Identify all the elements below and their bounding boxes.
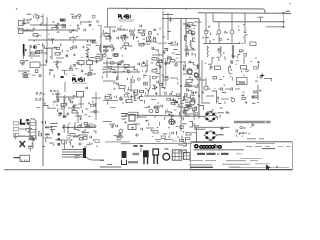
transistor <box>219 38 221 40</box>
junction <box>57 61 59 63</box>
wire <box>55 63 57 65</box>
resistor <box>66 54 68 56</box>
wire rail stub <box>105 141 130 143</box>
resistor R12 <box>170 60 175 62</box>
junction <box>242 97 246 99</box>
node <box>259 89 261 91</box>
wire <box>56 63 58 66</box>
resistor <box>173 48 177 50</box>
node <box>46 47 48 49</box>
capacitor <box>143 100 145 104</box>
junction <box>22 56 24 59</box>
wire <box>199 79 206 81</box>
wire <box>254 67 258 70</box>
capacitor <box>231 55 233 57</box>
resistor R11 <box>152 58 157 60</box>
wire bus <box>213 21 284 23</box>
junction <box>242 135 243 136</box>
wire <box>173 123 175 126</box>
diode <box>57 66 59 69</box>
diode <box>143 74 147 76</box>
bracket pre-block <box>181 136 183 143</box>
wire <box>240 50 244 52</box>
node <box>208 26 210 28</box>
diode <box>62 19 66 21</box>
capacitor C12 <box>184 23 186 26</box>
wire bracket <box>163 15 173 23</box>
resistor <box>236 63 238 65</box>
label dashes2 <box>22 76 27 78</box>
resistor <box>193 33 195 35</box>
capacitor <box>195 86 198 88</box>
bridge rectifier BR1 tab bot <box>209 120 213 122</box>
diode D6 <box>195 76 200 79</box>
transistor <box>70 31 72 33</box>
capacitor <box>73 137 75 139</box>
wire <box>19 135 26 137</box>
node <box>126 36 128 38</box>
wire <box>141 70 143 72</box>
capacitor <box>133 69 136 71</box>
resistor dark pair <box>59 113 62 115</box>
resistor <box>250 61 252 63</box>
junction <box>238 26 239 27</box>
resistor <box>187 51 189 54</box>
resistor R10 <box>139 44 144 46</box>
wire <box>184 113 196 115</box>
capacitor <box>73 64 76 66</box>
wire <box>184 85 196 87</box>
resistor R13 <box>188 23 193 25</box>
junction <box>146 39 148 41</box>
wire <box>252 102 256 104</box>
junction <box>193 62 195 65</box>
wire <box>66 50 69 52</box>
wire <box>184 49 196 51</box>
node <box>171 41 173 43</box>
transistor <box>153 37 155 39</box>
capacitor C8 <box>140 25 142 28</box>
capacitor <box>142 64 146 67</box>
bridge rectifier BR2 diamond <box>204 131 217 140</box>
transistor Q8b ring <box>187 69 192 74</box>
wire <box>109 46 114 48</box>
dark tick <box>134 145 138 147</box>
node <box>124 121 126 123</box>
junction <box>177 79 178 80</box>
wire <box>124 94 127 97</box>
wire <box>106 60 108 78</box>
wire <box>62 127 96 129</box>
junction <box>191 95 194 97</box>
resistor R41 <box>128 161 138 163</box>
node cross dark <box>260 74 264 78</box>
resistor R8 <box>104 34 109 36</box>
diode <box>138 32 142 34</box>
wire bus V+ <box>108 8 265 13</box>
junction <box>194 28 195 29</box>
capacitor C26 <box>110 97 112 100</box>
resistor <box>145 92 147 94</box>
wire <box>243 57 245 64</box>
resistor R36 <box>29 123 36 126</box>
logo underline <box>194 149 245 151</box>
resistor <box>65 73 67 75</box>
wire <box>224 56 226 58</box>
fuse F1 dot <box>25 49 27 51</box>
junction <box>93 29 94 30</box>
capacitor C34 <box>231 87 233 90</box>
capacitor <box>189 90 192 92</box>
wire rail left <box>180 19 182 119</box>
transistor <box>73 106 75 108</box>
junction <box>223 52 224 53</box>
node <box>45 60 47 62</box>
junction <box>70 25 71 26</box>
junction <box>49 34 50 35</box>
capacitor <box>140 94 142 97</box>
junction <box>230 73 233 75</box>
capacitor <box>218 103 221 105</box>
wire dashes row <box>110 107 116 109</box>
junction <box>164 88 166 90</box>
wire <box>29 45 31 56</box>
junction <box>237 81 238 82</box>
capacitor C25 <box>170 93 172 96</box>
diode <box>156 76 159 78</box>
diode <box>120 47 122 50</box>
wire <box>195 128 206 130</box>
transistor <box>224 31 226 33</box>
connector J2 pins <box>103 46 109 48</box>
relay K1 slug <box>239 81 246 84</box>
transistor Q14 <box>119 129 123 133</box>
capacitor <box>56 122 58 124</box>
capacitor <box>28 130 30 132</box>
wire <box>197 103 199 105</box>
capacitor C13 <box>185 35 187 38</box>
label dashes2 <box>259 138 264 140</box>
transistor <box>183 112 185 114</box>
capacitor <box>70 13 74 15</box>
transistor Q9 <box>194 73 198 77</box>
resistor <box>155 49 159 51</box>
resistor R7 <box>106 37 111 39</box>
node <box>189 76 191 78</box>
wire <box>56 93 58 103</box>
capacitor <box>143 74 145 76</box>
wire <box>32 74 36 76</box>
wire <box>63 25 65 27</box>
junction <box>255 57 257 59</box>
capacitor <box>171 102 175 104</box>
wire double top <box>256 143 275 145</box>
wire <box>193 123 195 127</box>
node <box>245 101 247 103</box>
junction <box>157 61 159 63</box>
wire <box>194 126 196 130</box>
label dashes <box>22 74 28 76</box>
title row1 dashes5 <box>286 146 291 148</box>
resistor <box>202 36 204 39</box>
wire <box>93 139 95 141</box>
capacitor <box>153 77 157 79</box>
capacitor <box>74 129 79 131</box>
node G <box>133 91 135 93</box>
wire <box>120 96 122 101</box>
logo mark <box>194 144 199 149</box>
transistor <box>97 20 99 22</box>
junction <box>187 115 189 117</box>
node <box>50 126 52 128</box>
wire <box>207 47 209 49</box>
bridge rectifier BR1 d3 <box>206 118 209 121</box>
capacitor <box>151 62 154 64</box>
wire <box>167 13 169 40</box>
junction <box>57 23 59 25</box>
wire <box>27 13 31 15</box>
capacitor C39 <box>90 136 92 139</box>
junction <box>156 68 157 69</box>
diode D1 <box>131 32 135 36</box>
wire tick <box>136 115 138 118</box>
transistor <box>240 126 243 129</box>
wire <box>103 62 122 64</box>
wire <box>244 35 246 44</box>
wire <box>57 90 59 102</box>
resistor <box>125 100 127 102</box>
title block left border <box>190 142 192 170</box>
node F <box>66 112 70 116</box>
resistor <box>29 146 33 148</box>
wire <box>30 24 65 26</box>
wire <box>226 112 230 114</box>
title model text word3 <box>221 153 229 155</box>
inductor L3 winding <box>52 93 61 95</box>
transistor <box>77 28 79 30</box>
wire <box>105 32 107 34</box>
transformer T2 body <box>172 150 182 160</box>
wire <box>244 13 246 22</box>
capacitor <box>80 118 82 120</box>
junction <box>96 145 97 146</box>
wire dashes row3 <box>179 106 186 108</box>
resistor <box>87 125 90 128</box>
capacitor <box>85 108 88 110</box>
transistor <box>231 62 233 64</box>
junction <box>168 43 172 45</box>
transistor <box>127 70 130 73</box>
diode <box>74 136 78 138</box>
wire <box>163 133 167 135</box>
wire <box>159 60 162 63</box>
capacitor C10 <box>166 49 168 52</box>
wire <box>183 73 187 75</box>
connector CN2 pins2 <box>58 138 61 141</box>
wire <box>205 85 209 87</box>
node <box>106 57 108 59</box>
junction <box>96 42 97 43</box>
capacitor C31 <box>193 110 195 113</box>
wire <box>64 140 66 149</box>
wire <box>123 89 125 91</box>
resistor R14 <box>190 40 191 47</box>
node <box>67 126 69 128</box>
wire <box>190 95 192 99</box>
wire <box>28 39 96 41</box>
wire <box>223 84 225 86</box>
wire <box>192 132 196 134</box>
wire <box>165 111 167 115</box>
transistor <box>165 62 167 64</box>
junction <box>183 65 184 66</box>
wire <box>50 69 54 71</box>
node <box>144 83 146 85</box>
diode <box>85 125 89 127</box>
wire corner <box>26 129 32 132</box>
wire <box>14 136 33 140</box>
wire <box>218 57 220 61</box>
wire <box>49 142 53 144</box>
capacitor <box>84 123 87 125</box>
wire <box>115 95 117 98</box>
wire <box>22 73 30 75</box>
resistor R44 <box>186 133 191 135</box>
node A <box>16 8 17 9</box>
capacitor <box>44 121 46 124</box>
bridge rectifier BR2 d2 <box>212 131 215 134</box>
label equals <box>75 155 81 157</box>
wire <box>235 88 240 90</box>
junction <box>125 48 126 49</box>
capacitor C4 <box>66 55 68 58</box>
wire <box>101 54 103 58</box>
diode <box>62 26 65 28</box>
junction <box>250 127 251 128</box>
resistor <box>79 138 83 140</box>
wire <box>170 44 178 46</box>
wire <box>44 137 52 139</box>
resistor <box>128 96 130 99</box>
wire <box>211 57 213 64</box>
node +V5 <box>251 123 255 127</box>
label dash2 <box>286 13 291 15</box>
capacitor <box>124 39 126 41</box>
wire <box>205 78 207 85</box>
capacitor cap pair <box>182 117 184 120</box>
node +V3 <box>251 95 255 99</box>
transformer T1 lead <box>86 44 91 46</box>
junction <box>96 56 97 57</box>
bridge rectifier BR2 d3 <box>206 136 209 139</box>
transistor Q9b ring <box>194 73 198 77</box>
diode <box>108 57 112 59</box>
node J <box>93 124 97 128</box>
title row5 dashes <box>189 164 212 166</box>
wire <box>146 60 148 72</box>
node <box>89 24 91 26</box>
resistor <box>208 63 211 65</box>
wire <box>74 122 76 130</box>
solder cluster dots <box>21 143 23 145</box>
wire <box>46 17 48 63</box>
junction <box>67 130 69 132</box>
resistor R6 <box>113 54 118 56</box>
wire <box>82 21 92 23</box>
wire step <box>43 106 56 109</box>
wire <box>239 51 242 53</box>
wire rail <box>121 142 192 145</box>
wire <box>89 25 91 27</box>
wire <box>147 89 149 93</box>
junction <box>37 20 38 21</box>
wire <box>108 67 111 69</box>
diode <box>207 88 211 90</box>
junction <box>178 137 179 138</box>
resistor <box>55 25 57 28</box>
wire <box>182 100 184 102</box>
diode <box>176 131 178 135</box>
wire <box>42 14 44 25</box>
relay contact dark <box>60 19 65 22</box>
capacitor <box>70 65 72 68</box>
wire <box>231 13 233 22</box>
capacitor C20 <box>86 87 88 90</box>
wire <box>212 90 216 92</box>
wire <box>244 22 246 30</box>
ground <box>109 124 115 128</box>
junction <box>48 48 49 49</box>
connector CN3 legs <box>154 155 157 164</box>
wire trunk <box>42 93 44 166</box>
wire <box>185 104 188 106</box>
title row1 dashes4 <box>278 146 283 148</box>
wire dashes row2 <box>144 107 149 109</box>
wire <box>116 76 118 79</box>
capacitor <box>148 90 150 92</box>
resistor R22 <box>61 104 66 106</box>
wire rail right seg <box>193 141 232 143</box>
wire <box>61 143 65 145</box>
diode <box>155 112 159 114</box>
junction <box>184 108 185 109</box>
node <box>95 61 97 63</box>
wire bus drop <box>107 8 109 27</box>
junction <box>164 52 165 53</box>
wire <box>92 97 101 99</box>
capacitor C31b <box>195 107 197 110</box>
capacitor C1 <box>64 24 66 27</box>
node <box>238 132 240 134</box>
resistor <box>136 69 138 72</box>
diode <box>38 131 40 133</box>
wire <box>102 76 104 78</box>
junction <box>213 57 214 58</box>
resistor <box>209 40 211 44</box>
wire <box>202 96 210 103</box>
wire <box>170 77 178 79</box>
wire <box>178 98 180 100</box>
wire <box>146 127 154 129</box>
diode <box>243 91 245 93</box>
junction <box>38 17 40 19</box>
wire <box>36 16 39 18</box>
capacitor C42 <box>116 125 118 128</box>
connector J1 pin 2 <box>19 29 24 34</box>
capacitor <box>211 110 213 113</box>
junction <box>20 61 24 63</box>
wire <box>23 72 26 74</box>
